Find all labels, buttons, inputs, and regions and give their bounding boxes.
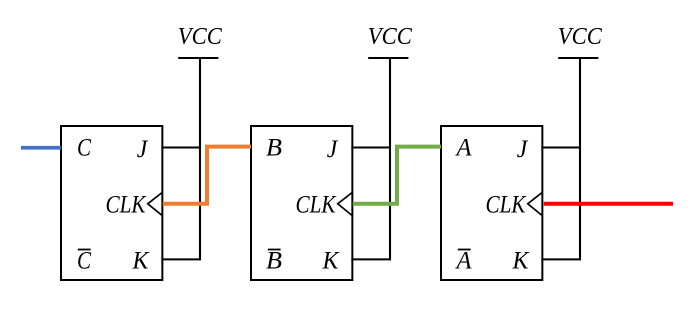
svg-text:CLK: CLK	[296, 192, 337, 219]
svg-text:VCC: VCC	[558, 24, 603, 50]
svg-text:C: C	[77, 135, 91, 162]
svg-text:C: C	[77, 248, 91, 275]
svg-text:CLK: CLK	[106, 192, 147, 219]
svg-text:J: J	[517, 136, 529, 163]
svg-text:A: A	[455, 135, 473, 162]
svg-text:K: K	[322, 248, 340, 275]
svg-text:J: J	[137, 136, 149, 163]
svg-text:CLK: CLK	[486, 192, 527, 219]
svg-text:VCC: VCC	[368, 24, 413, 50]
svg-text:B: B	[266, 248, 282, 275]
svg-text:J: J	[327, 136, 339, 163]
svg-text:K: K	[512, 248, 530, 275]
svg-text:VCC: VCC	[178, 24, 223, 50]
svg-text:K: K	[132, 248, 150, 275]
svg-text:B: B	[266, 135, 282, 162]
svg-text:A: A	[455, 248, 473, 275]
